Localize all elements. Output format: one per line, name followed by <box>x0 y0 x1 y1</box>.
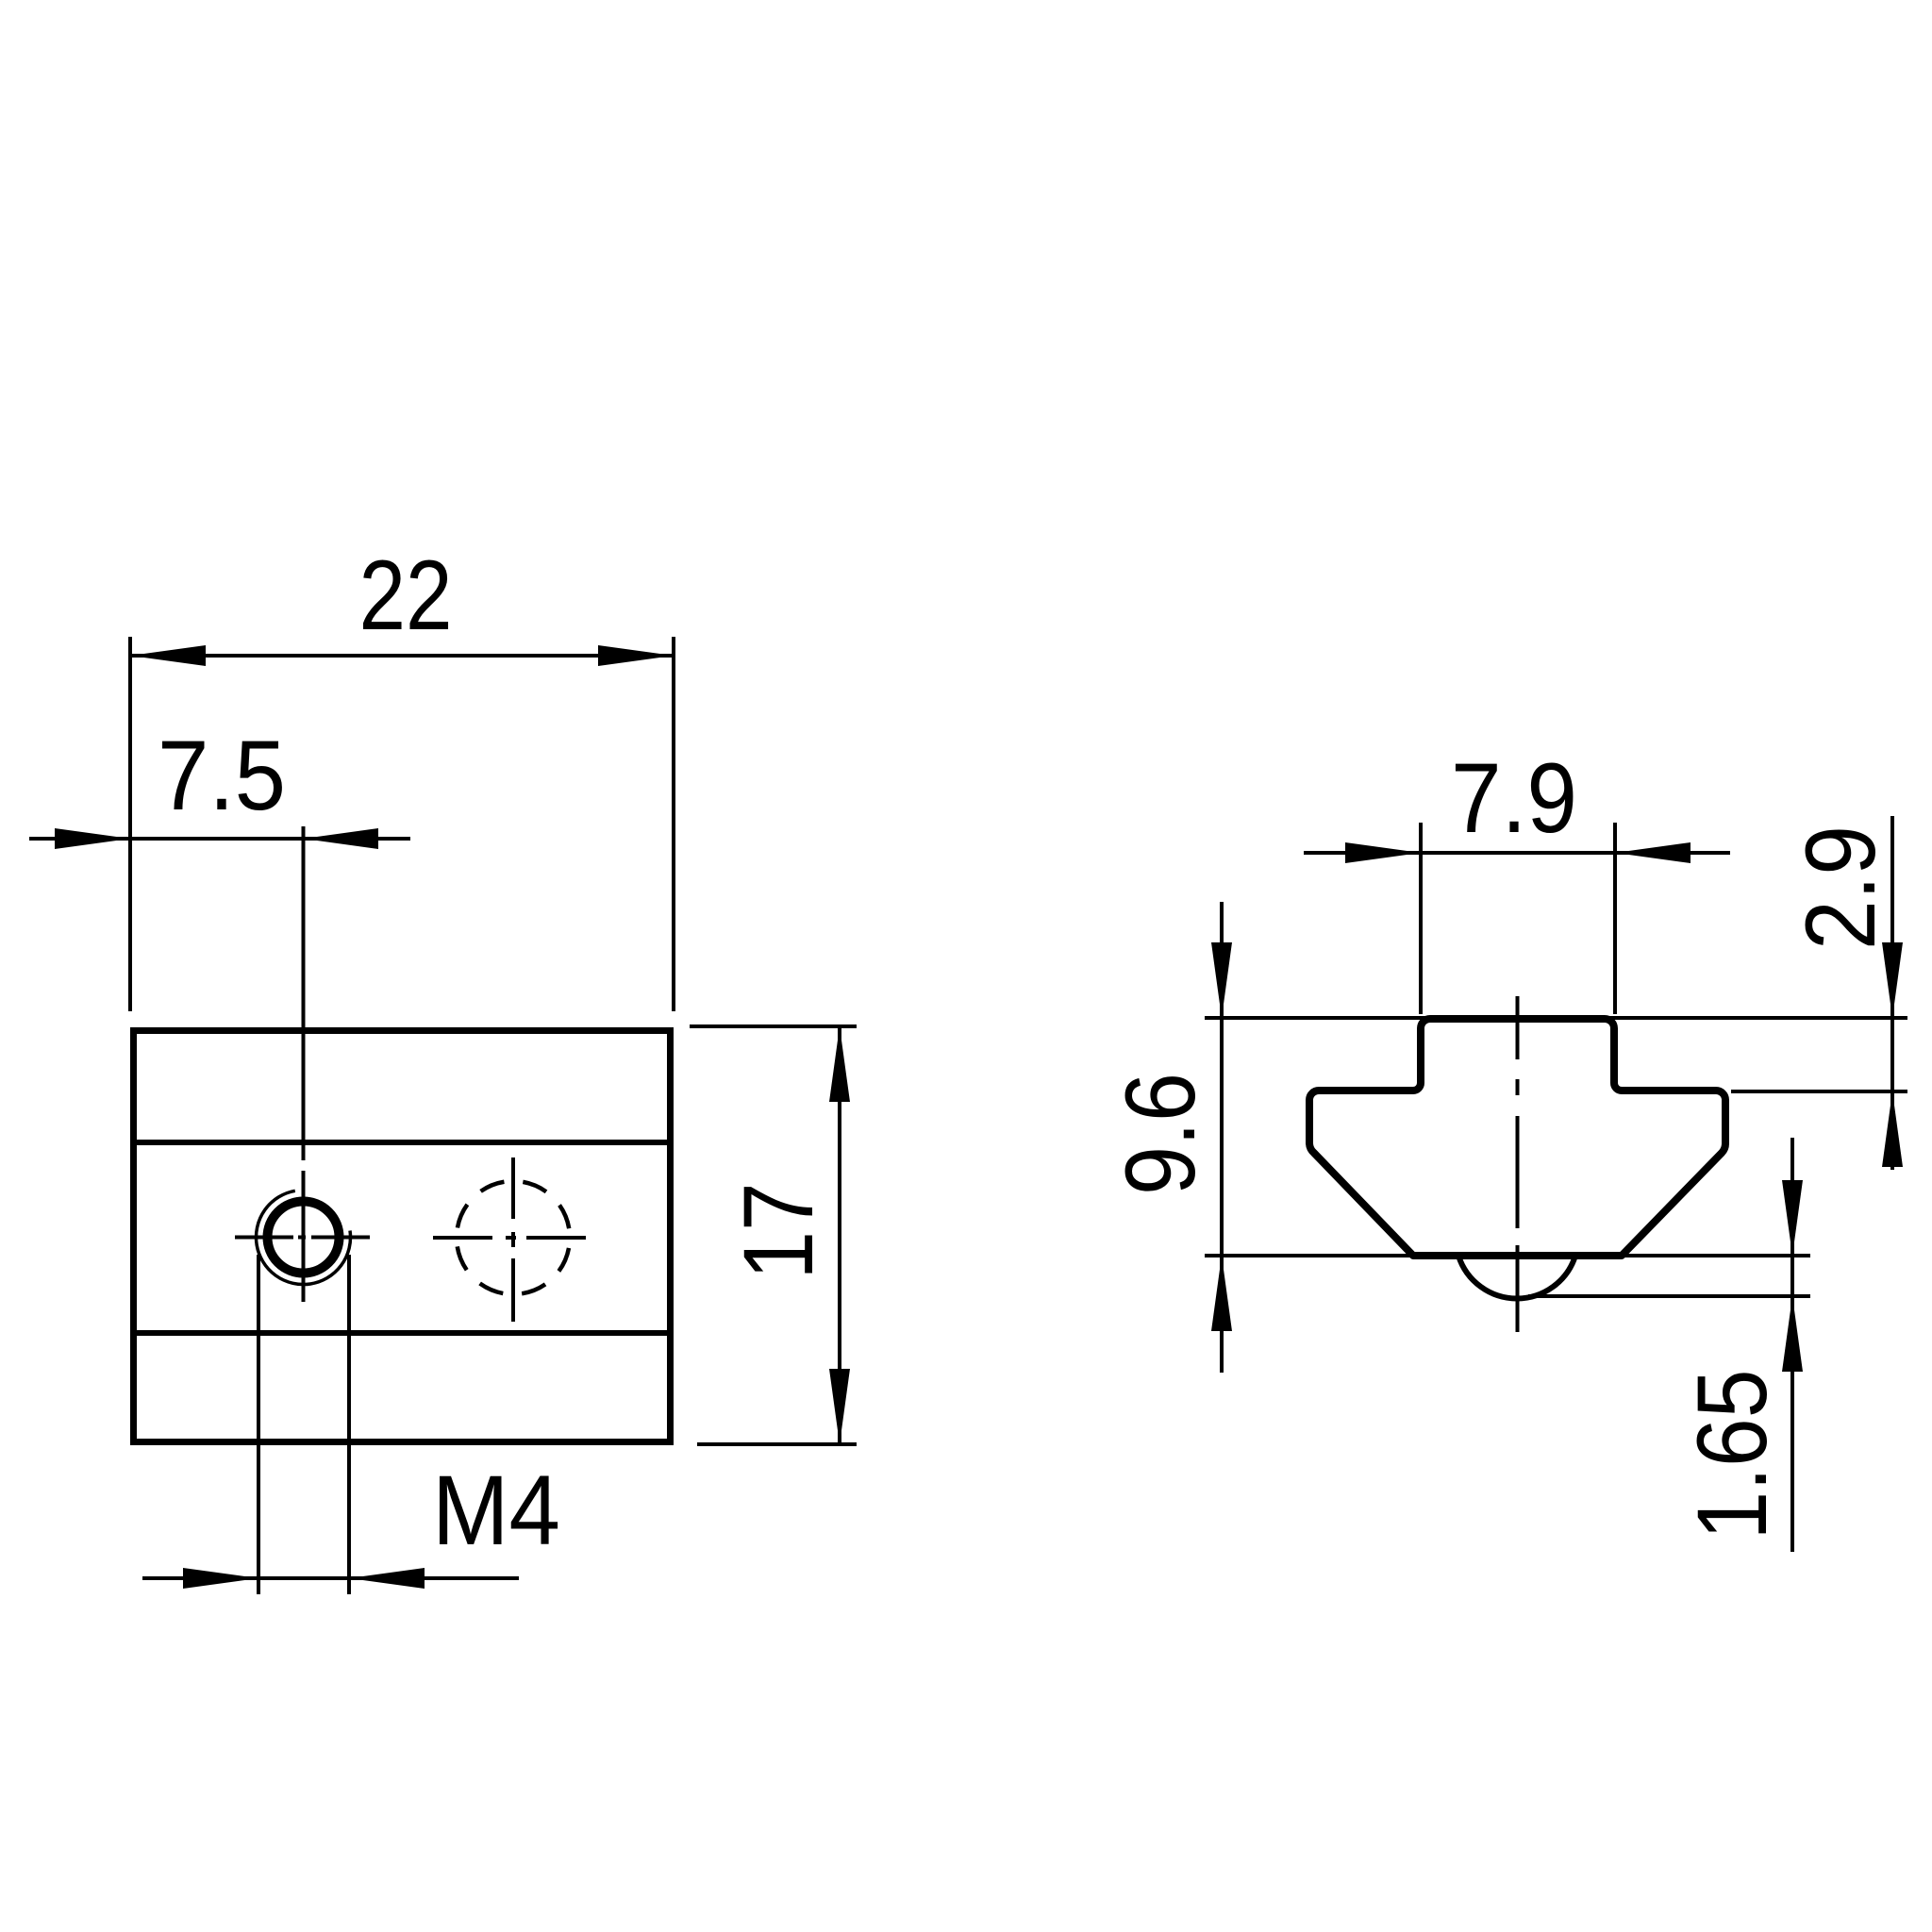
svg-text:2.9: 2.9 <box>1786 825 1896 950</box>
svg-text:1.65: 1.65 <box>1677 1370 1788 1541</box>
svg-text:M4: M4 <box>432 1456 560 1566</box>
svg-text:22: 22 <box>359 541 453 651</box>
svg-text:9.6: 9.6 <box>1106 1073 1216 1195</box>
svg-text:7.9: 7.9 <box>1451 743 1577 854</box>
svg-text:7.5: 7.5 <box>158 721 286 831</box>
svg-text:17: 17 <box>724 1183 834 1280</box>
